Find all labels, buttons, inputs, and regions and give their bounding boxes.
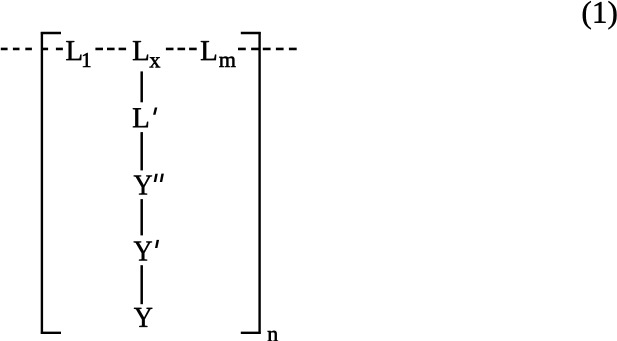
node Y' [134, 242, 152, 261]
prime mark of Y' [155, 240, 159, 248]
left bracket [41, 32, 61, 334]
formula number (1) [583, 1, 617, 29]
node Y [134, 308, 152, 327]
double prime mark of Y'' [154, 174, 158, 182]
wire: dashed bond L1 to Lx [95, 48, 126, 51]
wire: dashed bond exiting right of bracket [263, 48, 297, 51]
node Lm [201, 41, 216, 60]
node L' [133, 108, 148, 127]
node Y'' [134, 176, 152, 195]
right bracket [241, 32, 261, 334]
prime mark of L' [153, 108, 157, 115]
wire: dashed bond entering from left edge [1, 48, 32, 51]
wire: dashed bond Lm to right bracket [238, 48, 259, 51]
node Lx [133, 41, 148, 60]
wire: vertical bond Y' to Y [140, 265, 143, 304]
wire: vertical bond L' to Y'' [140, 132, 143, 170]
wire: dashed bond Lx to Lm [166, 48, 197, 51]
wire: dashed bond from left bracket to L1 [42, 48, 63, 51]
wire: vertical bond Lx to L' [140, 71, 143, 102]
wire: vertical bond Y'' to Y' [140, 199, 143, 235]
node L1 [66, 41, 81, 60]
subscript n of right bracket [268, 331, 278, 341]
